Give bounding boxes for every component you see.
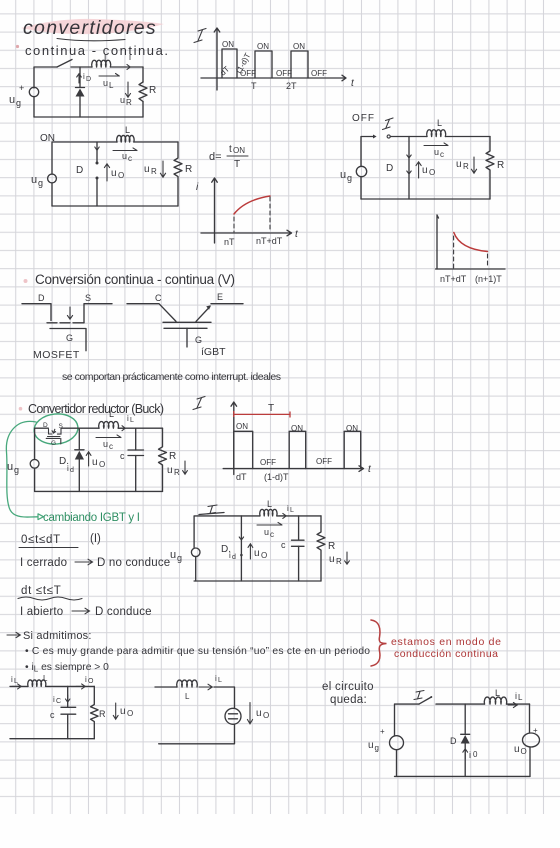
red brace: [371, 620, 387, 666]
svg-text:nT+dT: nT+dT: [256, 236, 283, 246]
arrow iL: [199, 684, 212, 690]
svg-text:G: G: [195, 335, 202, 345]
svg-text:O: O: [263, 711, 269, 720]
svg-text:L: L: [218, 677, 222, 684]
diode D branch wire: [408, 137, 410, 200]
svg-text:R: R: [174, 468, 180, 477]
svg-text:R: R: [126, 98, 132, 107]
svg-text:O: O: [127, 709, 133, 718]
svg-text:u: u: [7, 461, 13, 473]
svg-text:L: L: [125, 125, 130, 135]
svg-text:u: u: [167, 465, 173, 476]
svg-text:c: c: [440, 150, 444, 159]
label uo up arrow: [416, 162, 421, 178]
svg-text:G: G: [51, 440, 56, 447]
switch S1 open blade: [57, 60, 72, 68]
title underline: [57, 39, 125, 41]
switch contact circle: [387, 135, 390, 138]
svg-text:+: +: [380, 727, 385, 736]
diode D branch: [240, 516, 242, 581]
svg-text:D no conduce: D no conduce: [97, 557, 170, 569]
pulse 1: [222, 49, 237, 78]
svg-text:C: C: [56, 698, 61, 705]
dashed marker nT: [233, 217, 235, 232]
green highlight ellipse around switch: [33, 412, 80, 446]
resistor R: [174, 142, 182, 206]
capacitor C plates: [128, 450, 144, 456]
wire left bottom: [51, 183, 53, 206]
diode D1: [75, 451, 84, 460]
svg-text:L: L: [104, 53, 109, 63]
emitter wire: [211, 303, 243, 305]
pulse 2: [255, 51, 272, 78]
axis horizontal t: [201, 75, 346, 81]
svg-text:dT: dT: [236, 472, 247, 482]
title highlight: [21, 19, 164, 34]
svg-text:L: L: [109, 81, 114, 90]
svg-text:i: i: [469, 750, 471, 760]
svg-text:u: u: [122, 151, 127, 161]
label iD with arrow: [77, 74, 82, 83]
svg-text:d=: d=: [209, 151, 222, 163]
svg-text:íGBT: íGBT: [201, 346, 226, 358]
svg-text:convertidores: convertidores: [23, 17, 157, 39]
svg-text:i: i: [229, 551, 231, 560]
source wire: [84, 304, 112, 323]
label uc arrow: [96, 435, 121, 438]
red decay curve: [454, 233, 488, 252]
base bar: [163, 321, 211, 323]
svg-text:D: D: [86, 76, 91, 83]
svg-text:Convertidor reductor (Buck): Convertidor reductor (Buck): [28, 402, 164, 416]
right vertical: [529, 704, 531, 733]
dashed marker nT+dT: [269, 197, 271, 232]
wire below source: [159, 724, 235, 744]
svg-text:T: T: [234, 159, 240, 170]
svg-text:d: d: [70, 467, 74, 474]
switch blade closed: [199, 513, 224, 515]
inductor L coil: [260, 509, 277, 516]
diode D: [461, 735, 470, 744]
inductor L coil: [177, 680, 198, 687]
svg-text:D: D: [38, 293, 45, 303]
svg-text:u: u: [120, 95, 125, 105]
svg-text:D: D: [76, 165, 83, 176]
MOSFET mini symbol: [46, 429, 61, 444]
wire to corner: [214, 687, 235, 708]
svg-text:u: u: [9, 94, 15, 106]
bullet dot: [16, 45, 19, 48]
top wire left with arrow end: [361, 137, 374, 167]
label uo down arrow: [113, 703, 118, 719]
label uL with arrow: [99, 74, 119, 77]
vertical axis: [212, 178, 218, 243]
svg-text:O: O: [429, 168, 435, 177]
top wire: [194, 516, 260, 548]
arrow: [7, 632, 20, 637]
svg-text:R: R: [151, 167, 157, 176]
svg-text:u: u: [31, 174, 37, 186]
svg-text:T: T: [251, 81, 257, 91]
axis vertical: [214, 28, 220, 90]
svg-text:t: t: [229, 144, 232, 155]
svg-text:2T: 2T: [286, 81, 297, 91]
svg-text:i: i: [215, 674, 217, 683]
red period bracket T: [234, 411, 290, 418]
svg-text:L: L: [518, 693, 523, 702]
analysis text block 1: [18, 533, 170, 618]
svg-text:u: u: [111, 168, 117, 179]
top wire mid: [61, 427, 99, 429]
svg-text:i: i: [287, 504, 289, 513]
svg-text:T: T: [268, 403, 274, 414]
drain wire: [22, 304, 51, 321]
dashed marker (n+1)T: [487, 254, 489, 268]
svg-text:E: E: [217, 292, 223, 302]
svg-text:u: u: [514, 744, 520, 755]
svg-text:O: O: [88, 678, 94, 685]
horizontal axis: [201, 230, 292, 236]
svg-text:MOSFET: MOSFET: [33, 349, 80, 361]
source uo circle with =: [225, 708, 241, 724]
dashed marker nT+dT: [453, 236, 455, 268]
inductor L coil: [92, 60, 111, 67]
top wire left: [395, 704, 420, 736]
svg-text:conducción continua: conducción continua: [394, 648, 498, 660]
label I rotated: [193, 397, 205, 410]
svg-text:ON: ON: [291, 424, 303, 433]
svg-text:L: L: [109, 409, 114, 419]
fraction bar: [227, 155, 248, 157]
pulse 2: [289, 431, 306, 468]
svg-text:g: g: [38, 178, 43, 188]
bottom wire: [10, 738, 94, 740]
svg-text:L: L: [437, 118, 442, 128]
svg-text:c: c: [128, 154, 132, 163]
top wire left: [35, 428, 49, 459]
inductor L coil: [484, 697, 506, 704]
label uo with up arrow: [104, 164, 109, 181]
svg-text:R: R: [336, 557, 342, 566]
resistor R: [159, 428, 167, 491]
bullet dot: [24, 279, 28, 283]
wire + arrow: [277, 515, 321, 517]
bottom wire: [395, 775, 531, 777]
wire below uo: [529, 747, 531, 776]
svg-text:g: g: [16, 98, 21, 108]
svg-text:i: i: [83, 72, 85, 81]
svg-text:OFF: OFF: [352, 113, 375, 124]
underline: [19, 547, 78, 549]
svg-text:u: u: [170, 549, 176, 561]
svg-text:C: C: [155, 293, 162, 303]
svg-text:OFF: OFF: [316, 457, 332, 466]
label uc arrow: [257, 522, 282, 525]
label i0 with up arrow: [463, 749, 468, 759]
svg-text:d: d: [232, 554, 236, 561]
top wire left: [52, 142, 117, 174]
source uo ellipse: [523, 733, 540, 747]
collector wire: [127, 304, 176, 322]
svg-text:u: u: [120, 706, 126, 717]
svg-text:O: O: [118, 171, 124, 180]
bottom wire: [35, 490, 163, 492]
svg-text:u: u: [368, 740, 374, 751]
svg-text:i: i: [515, 691, 517, 701]
svg-text:R: R: [497, 160, 504, 171]
svg-text:u: u: [92, 457, 98, 468]
wire + arrow to corner: [507, 703, 530, 705]
wire top-left: [34, 67, 57, 88]
svg-text:u: u: [264, 527, 269, 537]
svg-text:ON: ON: [257, 42, 269, 51]
diode D1 branch: [78, 428, 80, 449]
source ug circle: [390, 736, 404, 750]
diode D branch: [464, 704, 466, 734]
label I: [207, 505, 218, 514]
svg-text:O: O: [99, 460, 105, 469]
top wire to R: [445, 136, 490, 138]
top wire mid: [436, 703, 485, 705]
svg-text:i: i: [67, 464, 69, 473]
bottom wire: [361, 198, 490, 200]
inductor L coil: [28, 680, 46, 686]
arrow io: [76, 684, 85, 689]
label uo up arrow: [86, 452, 91, 466]
resistor R: [317, 516, 325, 581]
svg-text:i: i: [127, 414, 129, 423]
svg-text:O: O: [521, 747, 527, 756]
bottom wire: [52, 205, 178, 207]
svg-text:OFF: OFF: [260, 458, 276, 467]
inductor L coil: [427, 130, 446, 137]
svg-text:nT+dT: nT+dT: [440, 274, 467, 284]
diode D1 branch wire: [79, 67, 81, 87]
capacitor branch wire: [67, 686, 69, 707]
resistor R1 zigzag: [139, 82, 147, 102]
arrow down: [67, 307, 72, 319]
source ug circle: [29, 87, 38, 96]
svg-text:i: i: [129, 52, 131, 62]
right branch resistor R: [91, 686, 99, 738]
wire left bottom: [33, 97, 35, 117]
svg-text:L: L: [267, 499, 272, 509]
svg-text:L: L: [495, 688, 500, 698]
svg-text:L: L: [130, 417, 134, 424]
svg-text:i: i: [11, 675, 13, 684]
svg-text:nT: nT: [224, 237, 235, 247]
svg-text:g: g: [347, 173, 352, 183]
svg-text:L: L: [43, 674, 48, 683]
gate lead: [186, 328, 188, 347]
svg-text:R: R: [169, 451, 176, 462]
pulse 3: [291, 51, 308, 78]
svg-text:el circuito: el circuito: [322, 681, 374, 693]
top wire right: [390, 136, 427, 138]
svg-text:u: u: [340, 169, 346, 181]
label uo down arrow: [247, 703, 252, 724]
capacitor C branch: [298, 516, 300, 540]
svg-text:i: i: [85, 675, 87, 684]
vertical axis: [437, 215, 439, 269]
svg-text:0: 0: [473, 750, 478, 759]
wavy underline: [18, 597, 82, 600]
red curve iL rising: [234, 196, 270, 214]
capacitor C branch: [135, 428, 137, 450]
svg-text:I abierto: I abierto: [20, 606, 63, 618]
left wire: [155, 686, 177, 688]
capacitor C plates: [292, 540, 305, 546]
top wire to corner: [46, 685, 95, 687]
svg-text:g: g: [14, 465, 19, 475]
vertical axis: [231, 402, 237, 475]
green swoosh to cambiando: [6, 421, 38, 517]
wire right bottom: [142, 102, 144, 118]
bullet dot: [19, 407, 23, 411]
svg-text:ON: ON: [236, 422, 248, 431]
source ug circle: [356, 166, 366, 176]
svg-text:Si admitimos:: Si admitimos:: [23, 630, 92, 642]
left wire with arrow: [10, 685, 28, 687]
source ug circle: [191, 548, 200, 557]
svg-text:dt ≤t≤T: dt ≤t≤T: [21, 585, 62, 597]
svg-text:(n+1)T: (n+1)T: [475, 274, 502, 284]
svg-text:Conversión continua - continu: Conversión continua - continua (V): [35, 272, 235, 287]
svg-text:• C es muy grande para a: • C es muy grande para admitir que su te…: [25, 646, 370, 657]
svg-text:queda:: queda:: [330, 694, 367, 706]
horizontal axis: [223, 466, 363, 472]
svg-text:c: c: [270, 530, 274, 539]
svg-text:O: O: [261, 551, 267, 560]
svg-text:g: g: [177, 553, 182, 563]
svg-text:OFF: OFF: [311, 69, 327, 78]
inductor L coil: [117, 135, 134, 142]
svg-text:ON: ON: [222, 40, 234, 49]
svg-text:c: c: [120, 451, 125, 461]
svg-text:+: +: [533, 726, 538, 735]
svg-text:D: D: [386, 163, 393, 174]
svg-text:G: G: [66, 333, 73, 343]
svg-text:u: u: [103, 439, 108, 449]
svg-text:(1-d)T: (1-d)T: [264, 472, 289, 482]
svg-text:ON: ON: [293, 42, 305, 51]
svg-text:R: R: [328, 541, 335, 552]
channel segments: [47, 322, 84, 324]
bottom wire: [194, 580, 321, 582]
svg-text:u: u: [434, 147, 439, 157]
source ug circle: [30, 459, 39, 468]
svg-text:L: L: [290, 507, 294, 514]
svg-text:ON: ON: [346, 424, 358, 433]
svg-text:R: R: [463, 162, 469, 171]
svg-text:u: u: [422, 165, 428, 176]
diode D1: [76, 89, 85, 97]
svg-text:cambiando IGBT y I: cambiando IGBT y I: [43, 512, 140, 524]
svg-text:+: +: [19, 83, 24, 93]
top wire right: [134, 141, 178, 143]
wire top mid: [71, 66, 92, 68]
svg-text:S: S: [85, 293, 91, 303]
label uR with down arrow: [126, 82, 131, 97]
svg-text:c: c: [50, 710, 55, 720]
inductor L coil: [99, 421, 119, 428]
resistor R: [486, 137, 494, 200]
svg-text:i: i: [53, 695, 55, 704]
svg-text:0≤t≤dT: 0≤t≤dT: [21, 534, 61, 546]
svg-text:OFF: OFF: [276, 69, 292, 78]
svg-text:L: L: [185, 692, 190, 701]
pulse 1: [234, 431, 253, 468]
svg-text:ON: ON: [233, 146, 245, 155]
right wire down: [142, 67, 144, 82]
svg-text:u: u: [144, 164, 150, 175]
source ug circle: [48, 174, 57, 183]
wire top right with current arrow i: [110, 66, 143, 68]
svg-text:(I): (I): [90, 533, 101, 545]
svg-text:• iL es siempre > 0: • iL es siempre > 0: [25, 662, 109, 674]
svg-text:R: R: [185, 164, 192, 175]
svg-text:OFF: OFF: [240, 69, 256, 78]
pulse 3: [344, 431, 361, 468]
svg-text:c: c: [109, 442, 113, 451]
svg-text:I cerrado: I cerrado: [20, 557, 67, 569]
svg-text:se comportan prácticamente co: se comportan prácticamente como interrup…: [62, 371, 281, 383]
switch blade: [419, 698, 431, 705]
label uo up arrow: [248, 544, 253, 559]
wire after coil with arrow: [118, 427, 162, 429]
svg-text:R: R: [149, 85, 156, 96]
gate bar: [164, 327, 207, 329]
capacitor C plates: [61, 707, 76, 714]
svg-text:c: c: [281, 540, 286, 550]
svg-text:u: u: [103, 78, 108, 88]
svg-text:u: u: [329, 554, 335, 565]
gate bar: [50, 329, 86, 351]
label I rotated: [414, 691, 424, 700]
label I switch rotated: [383, 118, 394, 130]
label I rotated: [194, 29, 206, 43]
svg-text:u: u: [256, 708, 262, 719]
svg-text:estamos en modo de: estamos en modo de: [391, 636, 501, 648]
emitter diagonal with arrow: [196, 307, 210, 322]
svg-text:u: u: [254, 548, 260, 559]
svg-text:g: g: [375, 744, 379, 753]
bottom wire: [34, 116, 143, 118]
svg-text:D conduce: D conduce: [95, 606, 152, 618]
label uc arrow: [113, 148, 137, 151]
horizontal axis: [436, 268, 506, 270]
svg-text:R: R: [99, 709, 106, 719]
svg-text:u: u: [456, 159, 462, 170]
diode D branch: [96, 142, 98, 163]
svg-text:D: D: [450, 736, 457, 746]
label uc arrow: [424, 143, 448, 146]
